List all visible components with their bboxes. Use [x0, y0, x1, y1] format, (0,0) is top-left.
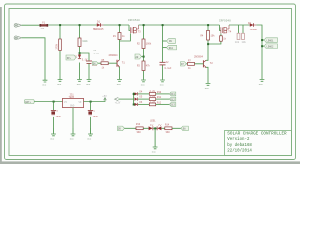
mosfet Q1 IRF9540 — [128, 19, 141, 33]
resistor R6 gate — [208, 34, 227, 45]
resistor R10 — [149, 90, 161, 96]
net flag T2 base — [181, 62, 187, 66]
wire stub flag D10 — [163, 47, 167, 49]
svg-text:GND: GND — [87, 137, 92, 140]
resistor R13 — [136, 123, 143, 134]
connector X2 SOLAR- — [14, 36, 21, 40]
led D5 — [135, 96, 143, 101]
capacitor C4 — [88, 102, 99, 134]
resistor R2 — [137, 25, 152, 80]
wire reg output — [84, 101, 104, 103]
resistor R5 — [98, 59, 117, 69]
wire solar- to ground — [22, 38, 46, 80]
svg-text:330: 330 — [137, 131, 142, 134]
wire row3b — [156, 103, 170, 105]
wire top rail segment A — [48, 24, 96, 26]
resistor R7 — [186, 60, 203, 70]
regulator IC1 7805 — [63, 93, 84, 107]
node divider2 mid — [143, 56, 145, 58]
ground cap column — [160, 80, 165, 82]
ground T2 — [206, 84, 211, 86]
wire divider tap — [80, 53, 90, 61]
ground load column — [260, 80, 265, 82]
led LED1 — [149, 119, 157, 130]
node rail x60 — [59, 24, 61, 26]
node load1 — [261, 39, 263, 41]
node cluster row1 — [133, 93, 135, 95]
wire led to gnd — [154, 128, 156, 147]
net flag BAT+ — [24, 99, 34, 103]
led LED2 — [157, 124, 161, 130]
wire top rail segment C — [139, 24, 220, 26]
varistor R15 — [56, 39, 62, 51]
transistor T2 2N3904 — [194, 56, 213, 84]
wire led row d — [172, 127, 181, 129]
wire led row a — [125, 127, 137, 129]
diode D2 — [248, 22, 258, 31]
net flag D11 — [169, 92, 176, 96]
resistor R14 — [165, 123, 172, 133]
supply arrow +5V — [102, 95, 107, 102]
net flag A0 — [135, 54, 144, 59]
svg-text:330: 330 — [166, 131, 171, 134]
net flag LOAD1 — [262, 38, 278, 43]
net flag T1 base — [92, 62, 98, 66]
wire column MOV — [59, 25, 61, 80]
ground reg — [71, 134, 76, 136]
resistor R16 — [78, 38, 88, 47]
wire row3 — [138, 103, 149, 105]
svg-text:by deba168: by deba168 — [227, 143, 252, 148]
wire row1b — [156, 93, 170, 95]
node cap C4 top — [90, 101, 92, 103]
transistor T1 2N3904 — [109, 54, 126, 80]
ground C4 — [88, 134, 93, 136]
node rail x143 — [143, 24, 145, 26]
diode D1 — [93, 21, 104, 31]
wire led row b — [143, 127, 148, 129]
resistor R8 hanger — [235, 25, 240, 44]
wire gate Q1 — [120, 34, 131, 42]
wire solar+ to fuse — [22, 24, 40, 26]
wire row1 — [138, 93, 149, 95]
capacitor C1 — [86, 61, 98, 67]
svg-text:Version-2: Version-2 — [227, 137, 250, 142]
wire reg input — [34, 101, 62, 103]
ground C3 — [51, 134, 56, 136]
wire led cluster spine — [133, 93, 135, 105]
node load2 — [261, 45, 263, 47]
node cluster row3 — [133, 104, 135, 106]
net flag D12 — [169, 97, 176, 101]
wire column divider left — [79, 25, 81, 79]
fuse F1 — [40, 22, 49, 30]
net flag BATT sense — [66, 55, 76, 60]
ground — [58, 80, 63, 82]
net flag D13 — [169, 103, 176, 107]
mosfet Q2 IRF9540 — [219, 20, 232, 34]
resistor R3 — [137, 61, 151, 71]
connector X1 SOLAR+ — [14, 23, 21, 27]
resistor R1 — [113, 25, 125, 59]
led D6b — [135, 101, 143, 106]
zener D5 — [74, 55, 88, 62]
supply arrow +12V — [115, 97, 134, 104]
net flag LOAD2 — [262, 44, 278, 49]
wire led row c — [161, 127, 164, 129]
net flag D10 — [167, 45, 177, 50]
ground — [87, 80, 92, 82]
wire rail to load column — [256, 25, 262, 79]
ground — [77, 80, 82, 82]
wire top rail segment B — [104, 24, 130, 26]
node rail x79 — [79, 24, 81, 26]
wire row2b — [156, 98, 170, 100]
ground divider2 — [141, 80, 146, 82]
svg-text:GND: GND — [152, 150, 157, 153]
capacitor C3 — [51, 102, 62, 134]
node cap C3 top — [53, 101, 55, 103]
resistor R12 — [149, 100, 161, 106]
resistor R4 — [201, 25, 216, 60]
svg-text:SOLAR CHARGE CONTROLLER: SOLAR CHARGE CONTROLLER — [227, 131, 287, 136]
wire reg gnd — [72, 108, 74, 134]
wire stub flag D9 — [163, 40, 167, 42]
wire cap to gnd — [88, 63, 90, 79]
net flag D9 — [167, 39, 176, 44]
net flag LED right — [181, 126, 188, 131]
ground led — [153, 147, 158, 149]
wire row2 — [138, 98, 149, 100]
svg-text:22/10/2014: 22/10/2014 — [227, 149, 252, 154]
wire top rail segment D — [229, 24, 250, 26]
node rail x162 — [162, 24, 164, 26]
node divider mid — [79, 52, 81, 54]
wire led mid — [153, 127, 157, 129]
resistor R11 — [149, 95, 161, 101]
node T2 collector gate — [207, 43, 209, 45]
svg-text:GND: GND — [70, 137, 75, 140]
node rail x119 — [119, 24, 121, 26]
wire cap column x162 — [162, 25, 164, 80]
node rail x208 — [207, 24, 209, 26]
ground — [43, 80, 48, 82]
svg-text:GND: GND — [50, 137, 55, 140]
capacitor C2 — [160, 61, 173, 70]
net flag LED left — [118, 126, 125, 131]
resistor R9 hanger — [242, 25, 247, 44]
led D4 — [135, 90, 143, 95]
ground T1 — [117, 80, 122, 82]
node led mid — [154, 127, 156, 129]
